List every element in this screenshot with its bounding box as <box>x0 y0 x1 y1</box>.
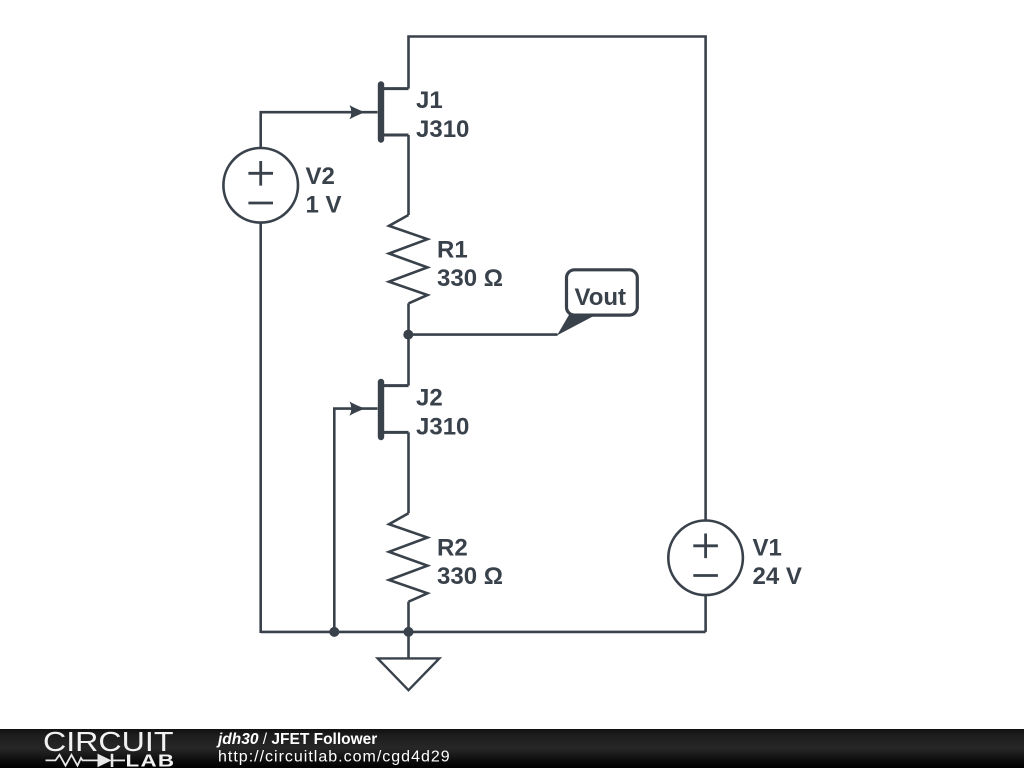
flag Vout <box>557 270 637 336</box>
svg-text:J2: J2 <box>416 385 443 412</box>
svg-text:http://circuitlab.com/cgd4d29: http://circuitlab.com/cgd4d29 <box>218 749 451 766</box>
ground <box>378 632 440 690</box>
svg-text:jdh30 / JFET Follower: jdh30 / JFET Follower <box>216 731 377 748</box>
transistor J1 <box>350 85 470 144</box>
node gate rail junction <box>329 627 339 637</box>
wire J2 source to R2 <box>407 432 410 513</box>
transistor J2 <box>350 382 470 441</box>
wire bottom ground rail <box>261 631 706 634</box>
resistor R1 <box>389 215 503 303</box>
wire V1 bottom to ground rail <box>704 595 707 632</box>
resistor R2 <box>389 513 503 601</box>
logo resistor-diode squiggle <box>46 754 126 768</box>
svg-text:24 V: 24 V <box>753 563 802 590</box>
svg-text:J310: J310 <box>416 414 469 441</box>
wire top rail J1 drain to V1 <box>409 37 706 521</box>
svg-text:J310: J310 <box>416 116 469 143</box>
svg-text:V2: V2 <box>306 163 335 190</box>
svg-text:R1: R1 <box>437 236 468 263</box>
svg-text:330 Ω: 330 Ω <box>437 563 503 590</box>
wire R1 bottom to node <box>407 303 410 334</box>
node resistor rail junction <box>404 627 414 637</box>
wire V2 bottom to ground rail <box>259 223 262 633</box>
voltage source V2 <box>223 148 341 223</box>
wire node to J2 drain <box>407 335 410 386</box>
svg-text:Vout: Vout <box>575 284 627 311</box>
svg-text:1 V: 1 V <box>306 192 342 219</box>
svg-text:330 Ω: 330 Ω <box>437 265 503 292</box>
wire J1 source to R1 <box>407 135 410 215</box>
wire J2 gate down to ground rail <box>334 409 377 633</box>
wire node to Vout flag <box>408 333 557 336</box>
svg-text:R2: R2 <box>437 534 468 561</box>
svg-text:V1: V1 <box>753 535 782 562</box>
wire V2 top to J1 gate <box>261 112 378 148</box>
node Vout junction <box>403 330 413 340</box>
svg-text:J1: J1 <box>416 87 443 114</box>
wire R2 bottom to ground rail <box>407 602 410 633</box>
voltage source V1 <box>668 521 802 596</box>
svg-text:LAB: LAB <box>126 751 176 768</box>
footer bar <box>0 729 1024 768</box>
